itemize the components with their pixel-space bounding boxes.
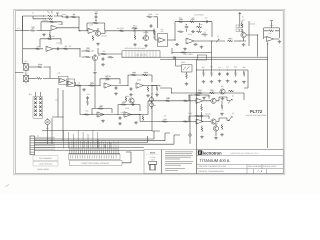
op-amp U14 [97,112,104,117]
stage1 wire [148,100,196,102]
svg-text:CHAVE GERAL: CHAVE GERAL [37,168,49,171]
wire Q2 base [142,31,146,38]
loop U15 [118,105,140,115]
wire input stage2 [79,30,88,32]
wire c5 stub [95,20,97,22]
resistor R29 [142,71,148,76]
resistor R23 [37,63,43,68]
ground G33 [220,133,224,136]
relay outline [33,97,43,119]
wire interstage [201,104,203,122]
long vertical x196.5 [196,60,198,150]
svg-text:INDUSTRIA ELETRONICA LTDA.: INDUSTRIA ELETRONICA LTDA. [231,152,260,155]
op-amp U10 [104,83,111,88]
svg-text:S2: S2 [232,112,234,115]
wire buffer wiring [264,37,280,39]
wire U1 output row [54,16,79,17]
label PL772 [246,109,268,117]
resistor R22 [268,30,274,32]
ground G19 [218,80,222,83]
svg-text:S1: S1 [232,94,234,97]
power bus lower [160,59,268,61]
ground G29 [118,122,122,125]
wire U2 output [58,27,79,29]
svg-text:R14: R14 [155,13,158,16]
rail y70 [197,69,249,71]
chain main wire [74,85,100,87]
wire junction dots [50,30,259,122]
loop U11 [128,75,152,86]
svg-text:1n: 1n [185,23,187,26]
node J2 [79,48,80,49]
wire to output buffer [246,35,258,57]
ground G10 [114,92,118,95]
capacitor C3 [65,16,69,19]
wide connector pin heads [69,148,118,149]
cluster r/c mid [125,96,127,102]
node junction to stage 2 [78,16,79,17]
ground G32 [220,113,224,116]
ground G2 [96,43,100,46]
svg-text:R33: R33 [86,47,89,50]
op-amp U9 box [67,79,75,87]
ground G22 [242,81,246,84]
wire opto [176,66,187,74]
capacitor C13 [86,96,89,100]
svg-text:ESCALA: S/ESC: ESCALA: S/ESC [263,165,277,168]
svg-text:R60: R60 [126,95,129,98]
svg-text:R39: R39 [234,66,237,69]
resistor R54 fb [195,94,201,96]
node n1 [43,15,44,16]
svg-text:C20: C20 [86,93,89,96]
resistor R35 [108,56,114,58]
transistor Q6 [211,98,216,103]
drawing frame outer border [14,9,285,174]
resistor R9 [93,22,99,24]
feedback wire U2 [41,22,62,31]
resistor R44b [183,100,189,102]
wire U5 out [168,39,176,41]
svg-text:Q4: Q4 [98,54,100,57]
ground G17 [202,80,206,83]
relay contact block [34,98,42,117]
svg-text:C5: C5 [226,66,228,69]
buffer loop [264,28,280,39]
ground G8 [278,40,282,43]
op-amp U5 box [158,34,168,47]
wire buffer out [267,41,269,43]
title block row lines [197,156,283,169]
connector text box 1 [69,154,120,159]
wire chain2 feed [79,86,81,115]
resistor R14 [147,13,153,18]
resistor R2 [47,18,53,20]
capacitor C7 [185,26,189,29]
wire relay top stubs [36,92,41,97]
loop U12 [189,95,209,101]
resistor R11 [119,27,125,32]
svg-text:4K7: 4K7 [228,37,231,40]
feedback loop U4 [87,23,105,31]
row3 text [199,165,278,168]
left vertical rail [22,16,24,64]
svg-text:R32: R32 [102,50,105,53]
loop U14 [92,109,112,115]
wire q4 [94,54,96,71]
relay wires down [48,88,64,144]
svg-text:R38: R38 [210,66,213,69]
wire r58 [221,101,223,111]
loop U13 [189,116,209,122]
long vertical right rail [267,42,269,148]
resistor R8 [63,45,69,50]
transistor Q1 [95,31,100,36]
svg-text:D1: D1 [242,19,244,22]
wire U3 output long [53,49,80,57]
power feed stage2 [95,13,98,15]
wire stage2 out [101,31,150,34]
wire Q3 [240,21,246,42]
svg-text:2n2: 2n2 [205,16,208,19]
bus A line 1 [35,131,160,139]
resistor R46 [162,118,168,123]
wire comb extension [122,152,131,163]
svg-text:K1: K1 [37,135,39,138]
resistor R4 feedback [49,21,55,23]
resistor R37 [203,71,205,77]
connector CN1 ladder [30,136,35,155]
svg-text:PROJETO: TITANIUM400/CER: PROJETO: TITANIUM400/CER [199,170,225,173]
ground G27 [200,136,204,139]
svg-text:ST: ST [217,35,219,38]
resistor R50 fb [98,105,104,110]
regulator IC box [198,55,207,60]
svg-text:BC548: BC548 [205,95,210,98]
svg-text:4K7: 4K7 [68,45,71,48]
power bus upper [122,56,268,58]
wire Q4 down to chain2 [94,75,96,109]
wire U15 out [131,101,152,115]
resistor R20 [227,37,233,42]
ground G26 [214,137,218,140]
op-amp U6 [186,38,194,44]
ground G9 [82,88,86,91]
resistor R5 [30,27,36,32]
svg-text:CI4: CI4 [269,32,272,35]
transistor Q3 [241,32,246,37]
wire U11 out [143,85,160,87]
relay coil X [45,119,50,124]
svg-text:D5: D5 [151,93,153,96]
svg-text:CIRCUITO CONTROLE DE 115VA: CIRCUITO CONTROLE DE 115VA [199,165,228,168]
transistor Q7 [211,119,216,124]
svg-text:NE2: NE2 [24,72,27,75]
ground G7 [242,43,246,46]
wire inner block [187,23,200,32]
svg-text:R1: R1 [51,10,53,13]
resistor R13 [153,30,155,36]
op-amp U13 [196,119,203,124]
wire Q1 collector [95,28,98,31]
resistor R32 [101,53,107,55]
transistor Q2 [143,35,148,40]
svg-text:C4: C4 [218,66,220,69]
resistor R18 [178,31,184,33]
resistor R30 [147,86,149,92]
wire U3 input [23,48,43,50]
ground G30 [134,121,138,124]
svg-text:CN1 COMANDO: CN1 COMANDO [39,157,53,160]
capacitor C9 [130,87,133,91]
op-amp U8 [60,78,66,83]
wire R14 [154,17,158,28]
capacitor C14 [131,103,135,106]
ground G20 [226,80,230,83]
long vertical x152 [152,86,154,132]
bus A line 2 [35,133,170,141]
wire U10 out [111,85,128,87]
svg-text:R4 1M: R4 1M [43,19,49,22]
op-amp U8 box [59,76,69,84]
transistor Q5 [220,89,225,94]
ground G23 [202,97,206,100]
svg-text:NE1: NE1 [24,60,27,63]
svg-text:R37: R37 [202,66,205,69]
main loop top [175,22,212,40]
resistor R41 [197,89,203,94]
resistor R27 fb [105,75,111,80]
resistor R15 [178,18,184,23]
wire to U5 [150,29,158,41]
ground G31 [172,56,176,59]
svg-text:R42: R42 [210,88,213,91]
svg-text:RESISTOR DE POTENCIA: RESISTOR DE POTENCIA [125,47,146,50]
note box NOTA [144,149,161,173]
resistor R1 [47,15,53,17]
logo electrotron [198,150,259,155]
arrow out A1 [216,39,219,43]
resistor R42 [209,89,215,94]
scan smudge bottom-left [6,185,10,187]
capacitor C10 [102,57,105,61]
capacitor C18 [175,43,179,46]
resistor R28 [131,71,137,76]
svg-text:CI5: CI5 [58,71,61,74]
resistor R58 [221,104,223,110]
wire relay row horizontal [42,130,152,132]
ground G14 [101,63,105,66]
wire top-left input loop [23,16,47,31]
wire lamp2 out [28,77,36,79]
wire q7 q8 [203,122,219,137]
svg-text:R41: R41 [198,88,201,91]
bus A line 4 [35,135,180,144]
wire r57 [49,31,51,40]
ground G5 [183,48,187,51]
ground G15 [93,72,97,75]
wire mid extras [172,41,212,70]
transistor Q9 [129,98,134,103]
resistor R33 [85,47,91,52]
lower chain wire [160,70,248,93]
wire lamp rail [15,64,26,84]
wire connector feeds [98,139,110,148]
ground G6 [200,46,204,49]
resistor R57 [49,33,51,39]
wire out2 [219,118,230,122]
svg-text:E1: E1 [17,27,19,30]
svg-text:TIP31: TIP31 [214,122,219,125]
resistor R7 [35,48,41,50]
wire out1 [219,97,230,101]
wire left input rail [15,30,29,32]
wire r33 [82,51,94,57]
wire RV1 drop [134,31,136,34]
capacitor C19 [194,43,198,46]
resistor R46b [183,121,189,123]
sensor symbol on x190 [189,134,192,137]
resistor R16 [189,18,195,23]
resistor R51 [121,101,127,106]
resistor R47 [201,126,203,132]
wire R22 [264,30,280,32]
resistor R25 [76,85,82,87]
node J3 [79,30,80,31]
svg-text:D3: D3 [154,104,156,107]
arrow out A2 [228,99,232,104]
resistor R43 [228,90,234,92]
arrow out A3 [228,117,232,122]
svg-text:D1: D1 [242,16,244,19]
resistor R48 [87,100,89,106]
resistor R53 [202,34,208,36]
resistor R19 [196,31,202,33]
resistor R26 [89,82,95,87]
optocoupler box [182,65,193,72]
capacitor C16 [205,20,209,23]
resistor R38 [211,71,213,77]
node J4 [174,39,175,40]
wire q6 [203,97,219,101]
capacitor C4 [56,47,60,50]
node J6 [151,85,152,86]
op-amp U15 [124,112,131,118]
feedback wire U3 [40,39,61,48]
wide connector comb [69,150,120,153]
resistor R34 [85,56,91,58]
svg-text:R49: R49 [85,110,88,113]
op-amp U3 [46,46,53,51]
note box text [162,149,197,173]
svg-text:R3: R3 [73,13,75,16]
wire r31 [152,86,157,94]
ground G13 [155,94,159,97]
label box CN [33,156,58,171]
ground G11 [129,93,133,96]
op-amp U9 [67,81,73,86]
wire chain2 to stage2 [139,115,141,122]
trimmer RV1 [132,25,138,32]
row3 dividers [247,164,262,168]
svg-text:7 - 4: 7 - 4 [257,170,263,173]
wire reg drop [175,57,177,66]
resistor R17 [196,26,202,28]
svg-text:CI2: CI2 [161,28,164,31]
wire block extra [202,22,212,37]
wire heatsink feed [98,48,122,54]
title block outline [197,149,283,173]
row4 dividers [247,169,267,174]
resistor R39 [235,71,237,77]
resistor R31 [156,86,158,92]
node n2 [61,15,62,16]
capacitor C17 [191,30,195,33]
power symbol +V [270,21,273,23]
bus B line 1 [35,147,144,149]
chain2 main wire [80,114,140,116]
resistor R3 [71,13,77,18]
resistor R49 [84,114,90,116]
svg-text:DATA: ABR/1994: DATA: ABR/1994 [248,165,262,168]
ground G28 [101,120,105,123]
wire to U2 [37,30,52,32]
comb riser wires [70,141,118,148]
ground G1 [42,33,46,36]
svg-text:4N25: 4N25 [181,61,185,64]
row4 text [199,170,263,173]
svg-text:BC548: BC548 [101,35,106,38]
svg-text:CONECTOR PAINEL FRONTAL: CONECTOR PAINEL FRONTAL [81,162,110,165]
svg-text:R9: R9 [95,19,97,22]
svg-text:CIRCUITO DE CONTROLE: CIRCUITO DE CONTROLE [246,114,268,117]
resistor R12 [134,34,136,40]
lamp L1 [24,64,29,70]
ground G3 [133,43,137,46]
ground G21 [234,80,238,83]
capacitor C8 [115,86,118,90]
op-amp U2 [51,25,58,30]
resistor R40 [243,71,245,77]
bus A line 3 [35,136,148,142]
svg-text:100n: 100n [62,13,66,16]
wire diode stack [151,96,153,109]
ground G12 [146,94,150,97]
wire U9 out [75,83,76,86]
svg-text:C15: C15 [120,111,123,114]
svg-text:PL772: PL772 [250,109,263,114]
svg-text:lectrotron: lectrotron [203,150,222,155]
resistor R44 [165,97,171,102]
svg-text:CI3 TL072: CI3 TL072 [194,14,204,17]
heatsink block [122,51,160,57]
svg-text:Q3: Q3 [242,30,244,33]
wire RN1 terminal [239,13,241,25]
resistor R59 [221,124,223,130]
resistor R56 [181,52,187,54]
vertical rail right cluster [246,21,249,46]
svg-text:TITANIUM 400 A: TITANIUM 400 A [200,158,230,163]
svg-text:1n: 1n [133,101,135,104]
resistor R6 feedback [47,35,53,40]
capacitor C12 [226,72,229,76]
TO-220 package drawing [149,161,157,170]
svg-text:LIGA / DESLIGA: LIGA / DESLIGA [39,163,53,166]
wire chain end [243,93,245,100]
wire lamp1 out [28,66,36,68]
wire U6 output [194,40,225,42]
transistor Q8 [213,126,218,131]
